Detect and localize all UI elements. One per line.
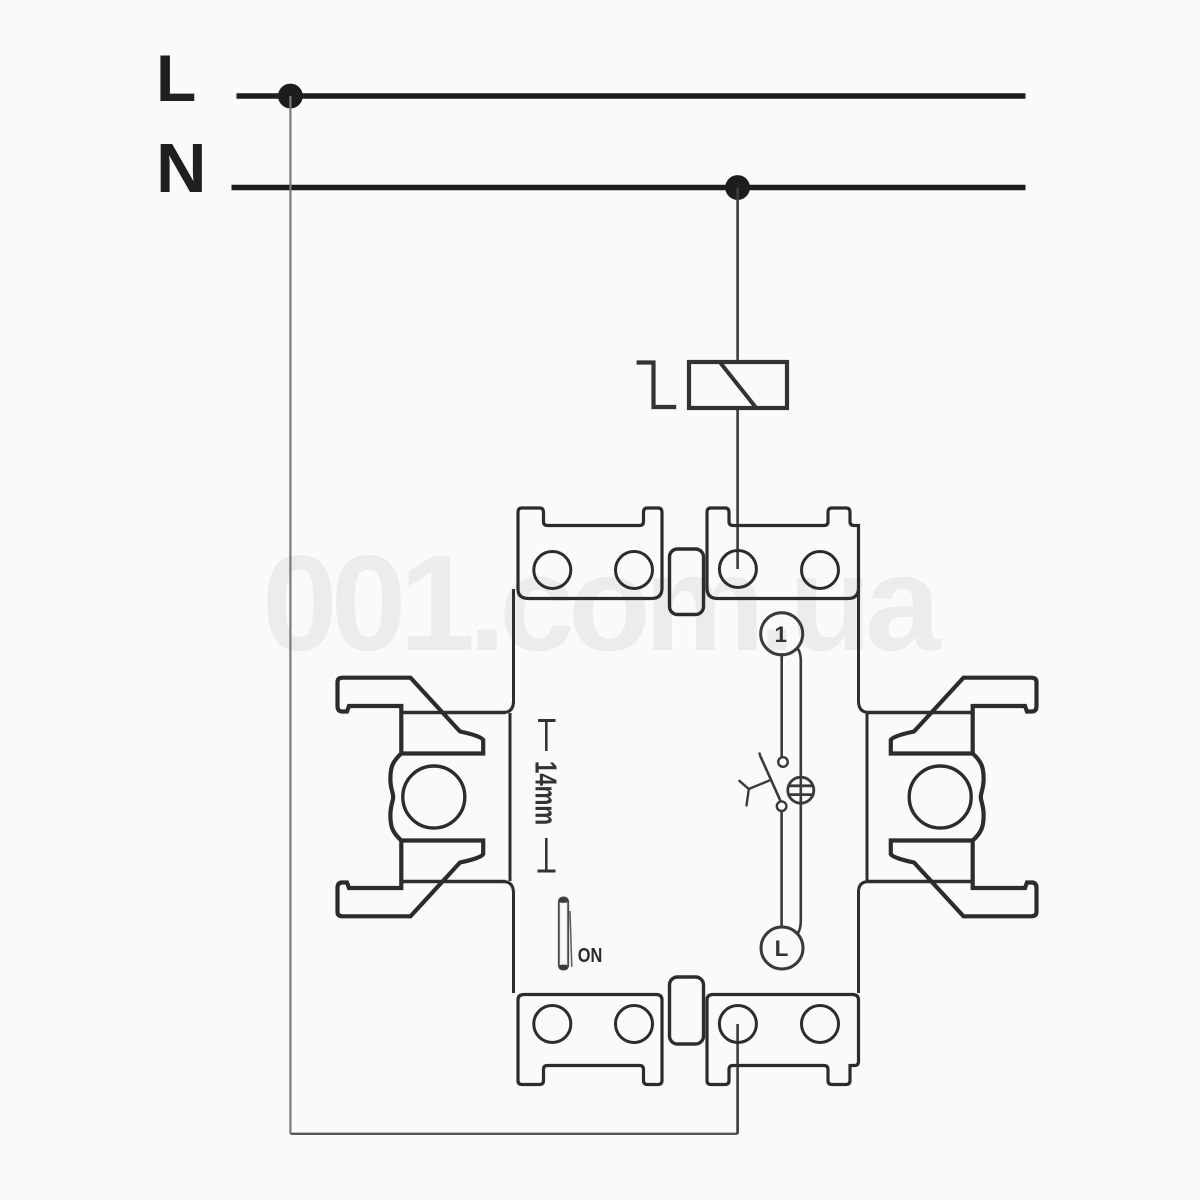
svg-text:N: N xyxy=(156,129,207,207)
svg-text:1: 1 xyxy=(774,622,787,647)
svg-text:001.com.ua: 001.com.ua xyxy=(262,527,942,679)
svg-text:ON: ON xyxy=(578,945,603,967)
svg-text:L: L xyxy=(775,936,789,961)
svg-text:14mm: 14mm xyxy=(529,761,564,825)
svg-text:L: L xyxy=(156,41,196,115)
